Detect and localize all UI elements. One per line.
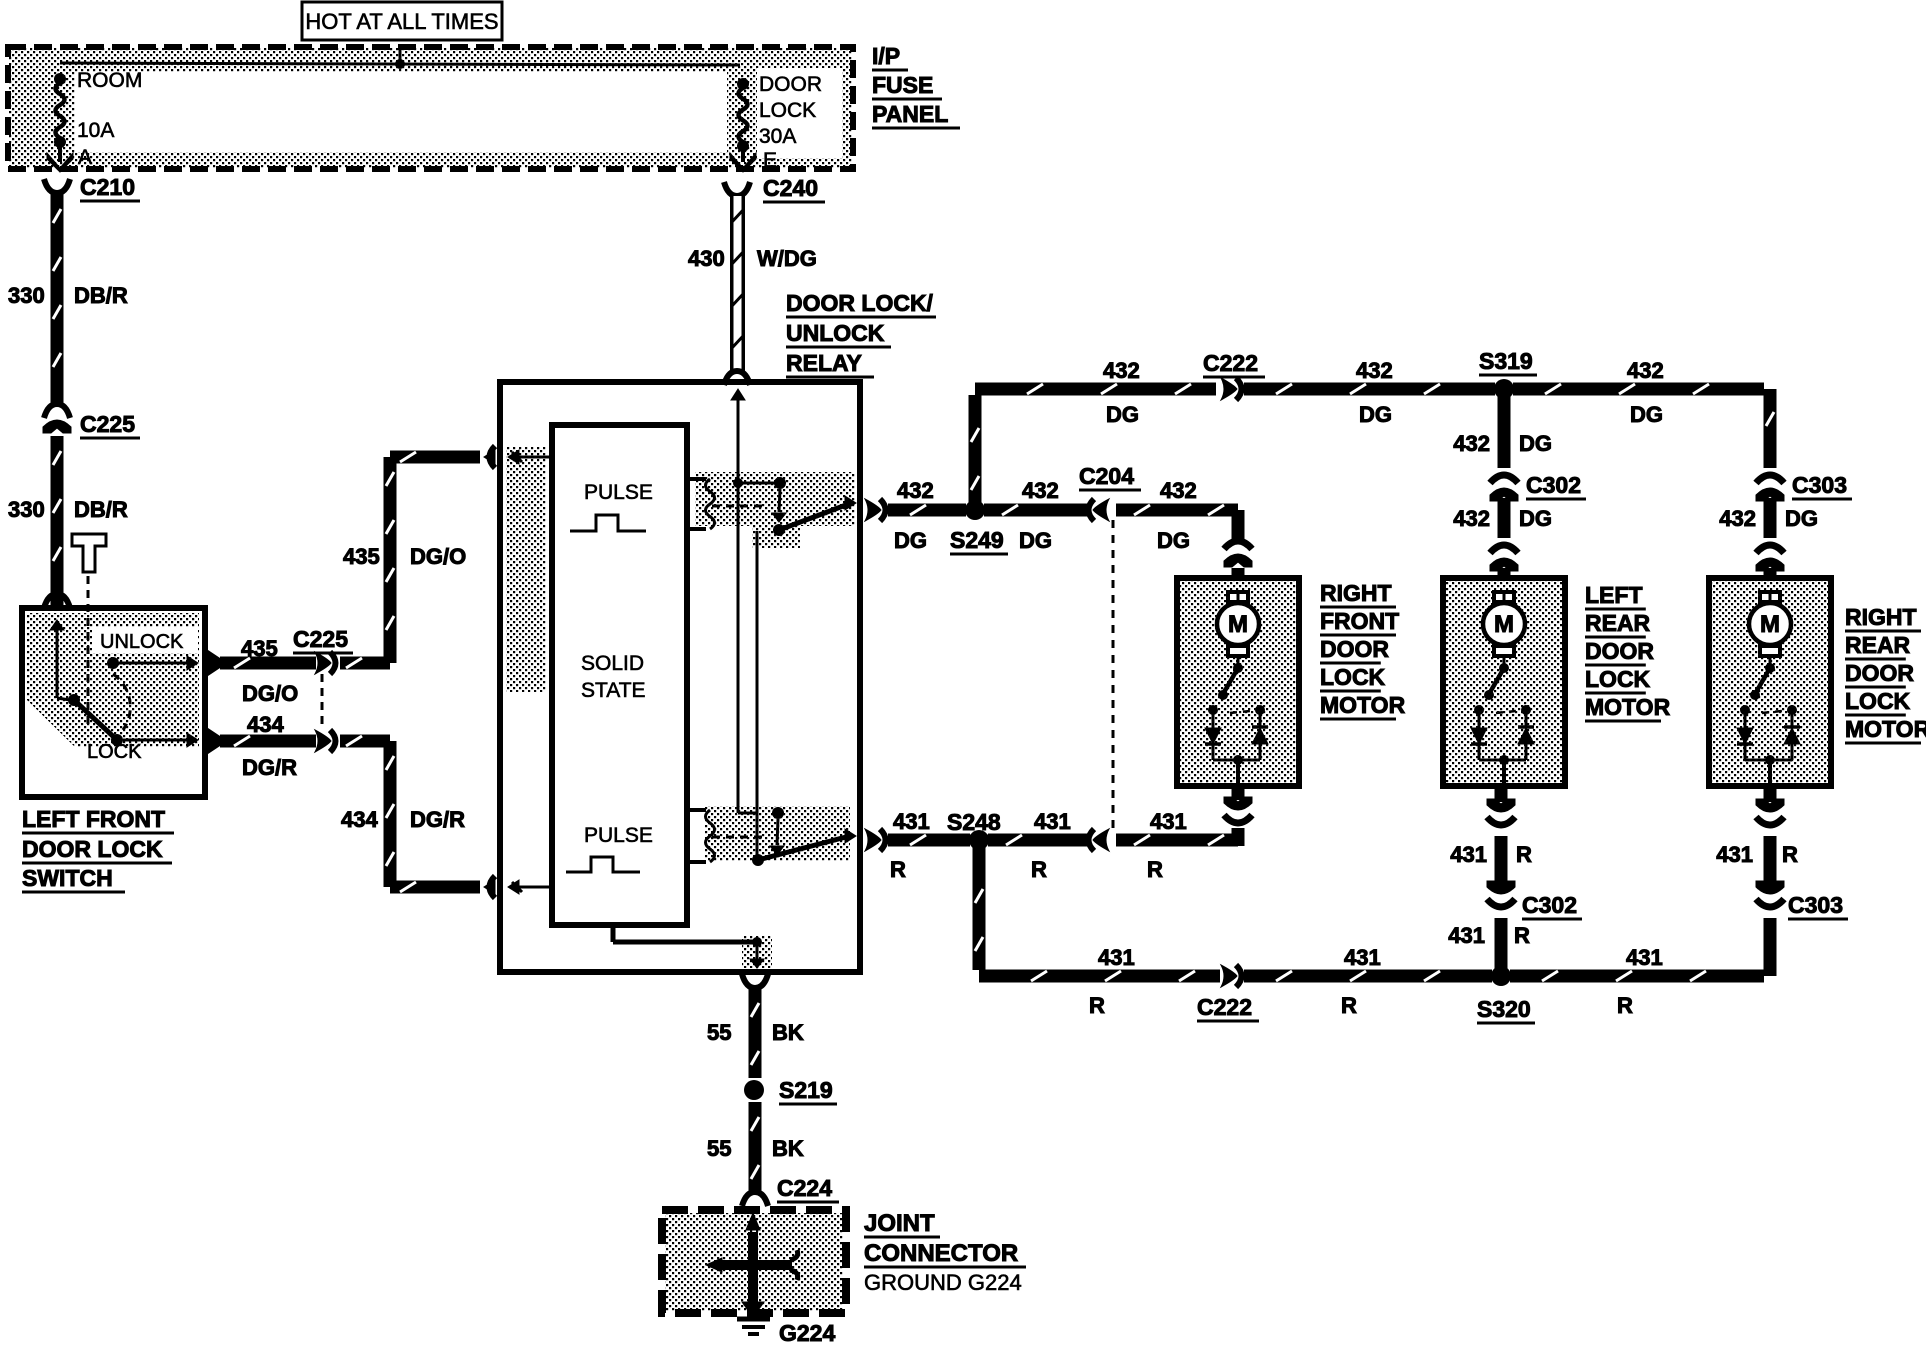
svg-text:ROOM: ROOM	[77, 69, 142, 92]
svg-text:R: R	[1516, 842, 1532, 867]
svg-text:S248: S248	[947, 809, 1001, 835]
svg-text:432: 432	[1022, 478, 1059, 503]
svg-text:431: 431	[1626, 945, 1663, 970]
svg-text:SWITCH: SWITCH	[22, 865, 113, 891]
svg-text:CONNECTOR: CONNECTOR	[864, 1240, 1018, 1267]
svg-text:S320: S320	[1477, 996, 1531, 1022]
svg-text:FUSE: FUSE	[872, 72, 933, 98]
svg-text:R: R	[1617, 993, 1633, 1018]
svg-text:DG: DG	[1519, 431, 1552, 456]
svg-text:M: M	[1760, 611, 1780, 638]
svg-text:UNLOCK: UNLOCK	[100, 631, 184, 653]
svg-text:C204: C204	[1079, 463, 1134, 489]
svg-text:431: 431	[1034, 809, 1071, 834]
svg-text:C225: C225	[293, 626, 348, 652]
svg-text:432: 432	[1103, 358, 1140, 383]
svg-text:C222: C222	[1197, 994, 1252, 1020]
svg-text:HOT AT ALL TIMES: HOT AT ALL TIMES	[305, 9, 498, 34]
svg-text:LOCK: LOCK	[1320, 664, 1386, 690]
svg-text:G224: G224	[779, 1320, 835, 1344]
svg-text:FRONT: FRONT	[1320, 608, 1399, 634]
svg-text:R: R	[890, 857, 906, 882]
svg-text:LEFT: LEFT	[1585, 582, 1643, 608]
svg-text:DOOR LOCK: DOOR LOCK	[22, 836, 163, 862]
svg-text:DG/O: DG/O	[410, 544, 466, 569]
svg-text:RIGHT: RIGHT	[1320, 580, 1392, 606]
svg-text:DG: DG	[1019, 528, 1052, 553]
svg-text:R: R	[1341, 993, 1357, 1018]
svg-text:DG/O: DG/O	[242, 681, 298, 706]
svg-text:M: M	[1494, 611, 1514, 638]
svg-text:JOINT: JOINT	[864, 1210, 935, 1237]
svg-text:BK: BK	[772, 1020, 804, 1045]
svg-text:R: R	[1031, 857, 1047, 882]
svg-text:434: 434	[247, 712, 284, 737]
svg-text:W/DG: W/DG	[757, 246, 817, 271]
svg-text:DG: DG	[1157, 528, 1190, 553]
svg-text:431: 431	[1098, 945, 1135, 970]
svg-text:432: 432	[897, 478, 934, 503]
svg-text:MOTOR: MOTOR	[1845, 716, 1926, 742]
svg-text:I/P: I/P	[872, 43, 900, 69]
svg-text:R: R	[1514, 923, 1530, 948]
svg-text:M: M	[1228, 611, 1248, 638]
svg-text:435: 435	[241, 636, 278, 661]
svg-text:DG: DG	[1106, 402, 1139, 427]
svg-text:DG: DG	[1785, 506, 1818, 531]
svg-text:431: 431	[1448, 923, 1485, 948]
svg-text:C303: C303	[1788, 892, 1843, 918]
svg-text:DG: DG	[1359, 402, 1392, 427]
svg-text:REAR: REAR	[1585, 610, 1651, 636]
svg-text:C222: C222	[1203, 350, 1258, 376]
svg-text:C302: C302	[1522, 892, 1577, 918]
svg-text:DOOR: DOOR	[1845, 660, 1914, 686]
svg-text:S319: S319	[1479, 348, 1533, 374]
svg-text:55: 55	[707, 1136, 731, 1161]
svg-text:DOOR: DOOR	[1585, 638, 1654, 664]
svg-text:432: 432	[1627, 358, 1664, 383]
svg-text:STATE: STATE	[581, 679, 646, 702]
svg-text:DOOR: DOOR	[759, 73, 822, 96]
svg-text:A: A	[78, 146, 92, 169]
svg-text:DG: DG	[894, 528, 927, 553]
svg-text:C224: C224	[777, 1175, 832, 1201]
svg-text:C303: C303	[1792, 472, 1847, 498]
svg-text:432: 432	[1160, 478, 1197, 503]
svg-text:DG: DG	[1630, 402, 1663, 427]
svg-text:PANEL: PANEL	[872, 101, 948, 127]
svg-text:PULSE: PULSE	[584, 481, 653, 504]
svg-text:LEFT FRONT: LEFT FRONT	[22, 806, 165, 832]
svg-text:432: 432	[1453, 431, 1490, 456]
svg-text:434: 434	[341, 807, 378, 832]
svg-text:S219: S219	[779, 1077, 833, 1103]
svg-text:435: 435	[343, 544, 380, 569]
svg-text:SOLID: SOLID	[581, 652, 644, 675]
svg-text:E: E	[763, 149, 777, 172]
svg-text:DG/R: DG/R	[410, 807, 465, 832]
svg-text:R: R	[1147, 857, 1163, 882]
svg-text:432: 432	[1453, 506, 1490, 531]
svg-text:DOOR LOCK/: DOOR LOCK/	[786, 290, 934, 316]
svg-text:DG: DG	[1519, 506, 1552, 531]
svg-text:RIGHT: RIGHT	[1845, 604, 1917, 630]
svg-text:432: 432	[1719, 506, 1756, 531]
svg-text:R: R	[1089, 993, 1105, 1018]
svg-text:R: R	[1782, 842, 1798, 867]
svg-text:431: 431	[893, 809, 930, 834]
svg-text:C225: C225	[80, 411, 135, 437]
svg-text:LOCK: LOCK	[1845, 688, 1911, 714]
svg-text:431: 431	[1150, 809, 1187, 834]
svg-text:DB/R: DB/R	[74, 283, 128, 308]
svg-text:DB/R: DB/R	[74, 497, 128, 522]
svg-text:432: 432	[1356, 358, 1393, 383]
svg-text:MOTOR: MOTOR	[1585, 694, 1671, 720]
svg-text:PULSE: PULSE	[584, 824, 653, 847]
svg-text:UNLOCK: UNLOCK	[786, 320, 885, 346]
svg-text:BK: BK	[772, 1136, 804, 1161]
svg-text:10A: 10A	[77, 119, 114, 142]
svg-text:431: 431	[1450, 842, 1487, 867]
svg-text:431: 431	[1344, 945, 1381, 970]
svg-text:RELAY: RELAY	[786, 350, 862, 376]
svg-text:55: 55	[707, 1020, 731, 1045]
svg-text:30A: 30A	[759, 125, 796, 148]
svg-text:431: 431	[1716, 842, 1753, 867]
svg-text:LOCK: LOCK	[759, 99, 816, 122]
svg-text:REAR: REAR	[1845, 632, 1911, 658]
svg-text:330: 330	[8, 497, 45, 522]
svg-text:C210: C210	[80, 174, 135, 200]
svg-text:DG/R: DG/R	[242, 755, 297, 780]
svg-text:430: 430	[688, 246, 725, 271]
svg-text:GROUND G224: GROUND G224	[864, 1270, 1022, 1295]
svg-text:DOOR: DOOR	[1320, 636, 1389, 662]
svg-text:C240: C240	[763, 175, 818, 201]
svg-text:MOTOR: MOTOR	[1320, 692, 1406, 718]
svg-text:330: 330	[8, 283, 45, 308]
svg-text:S249: S249	[950, 527, 1004, 553]
svg-text:LOCK: LOCK	[1585, 666, 1651, 692]
svg-text:C302: C302	[1526, 472, 1581, 498]
